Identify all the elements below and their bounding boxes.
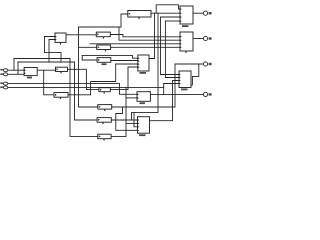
wire: [165, 20, 180, 22]
gate M1: [24, 68, 37, 79]
wire: [68, 94, 91, 96]
output pad Q3: [203, 62, 211, 66]
wire: [110, 35, 180, 37]
output pad Q1: [203, 11, 211, 15]
wire B13 out to G6 pin1: [111, 119, 137, 121]
wire: [45, 37, 56, 53]
wire: [81, 56, 83, 60]
wire: [132, 13, 159, 120]
wire: [17, 62, 19, 74]
gate G6: [137, 117, 149, 136]
output pad Q4: [203, 92, 211, 96]
gate F5: [98, 105, 112, 111]
gate M2: [55, 33, 66, 45]
wire: [111, 46, 180, 48]
gate F9: [54, 93, 68, 100]
wire S-route to G6 pin4: [116, 107, 138, 130]
wire: [150, 93, 203, 95]
wire: [150, 81, 180, 121]
wire: [161, 17, 180, 75]
wire: [193, 12, 203, 14]
wire: [163, 84, 165, 95]
wire: [126, 122, 138, 124]
wire: [45, 53, 62, 62]
wire: [164, 83, 179, 85]
gate G3: [179, 71, 191, 90]
output pad Q2: [203, 36, 211, 40]
gate G5: [137, 92, 151, 104]
wire: [82, 59, 97, 61]
wire: [156, 5, 180, 13]
input pad P3: [0, 82, 8, 85]
wire bus x78.5: [79, 27, 98, 107]
wire: [37, 69, 55, 71]
wire: [134, 112, 138, 126]
wire bus x82.2: [70, 59, 98, 137]
input pad P1: [0, 69, 8, 72]
gate F1: [96, 32, 110, 39]
wire: [175, 63, 203, 65]
wire M2 out to F1 in: [66, 34, 96, 36]
wire: [193, 38, 203, 40]
wire: [49, 40, 55, 63]
gate G4: [138, 55, 149, 74]
wire: [8, 84, 137, 95]
wire: [8, 69, 24, 71]
wire: [119, 27, 180, 40]
wire: [191, 64, 199, 85]
wire: [165, 21, 179, 78]
wire bus x75.9: [75, 62, 98, 120]
wire to F10 in: [79, 14, 128, 27]
wire: [44, 70, 54, 95]
wire: [161, 16, 181, 18]
wire y55.6 run: [82, 56, 138, 59]
wire: [8, 86, 164, 88]
wire: [111, 60, 138, 62]
gate G2: [180, 32, 193, 53]
gate F10: [128, 11, 151, 19]
wire: [91, 64, 138, 95]
wire pad2 net extension: [18, 61, 75, 63]
gate F6: [97, 118, 111, 125]
gate F2: [97, 45, 111, 51]
wire: [112, 64, 175, 107]
wire: [111, 87, 126, 136]
wire: [149, 13, 155, 58]
wire: [14, 59, 70, 71]
wire: [151, 12, 180, 14]
wire: [79, 46, 97, 48]
gate F8: [56, 67, 68, 73]
wire: [126, 97, 137, 99]
gate F7: [98, 134, 111, 140]
gate F4: [99, 88, 110, 94]
wire: [8, 73, 24, 75]
wire: [110, 67, 138, 90]
gate G1: [180, 6, 193, 27]
gate F3: [97, 58, 111, 66]
wire: [90, 43, 180, 45]
input pad P2: [0, 73, 8, 76]
input pad P4: [0, 86, 8, 89]
wire: [68, 69, 99, 89]
